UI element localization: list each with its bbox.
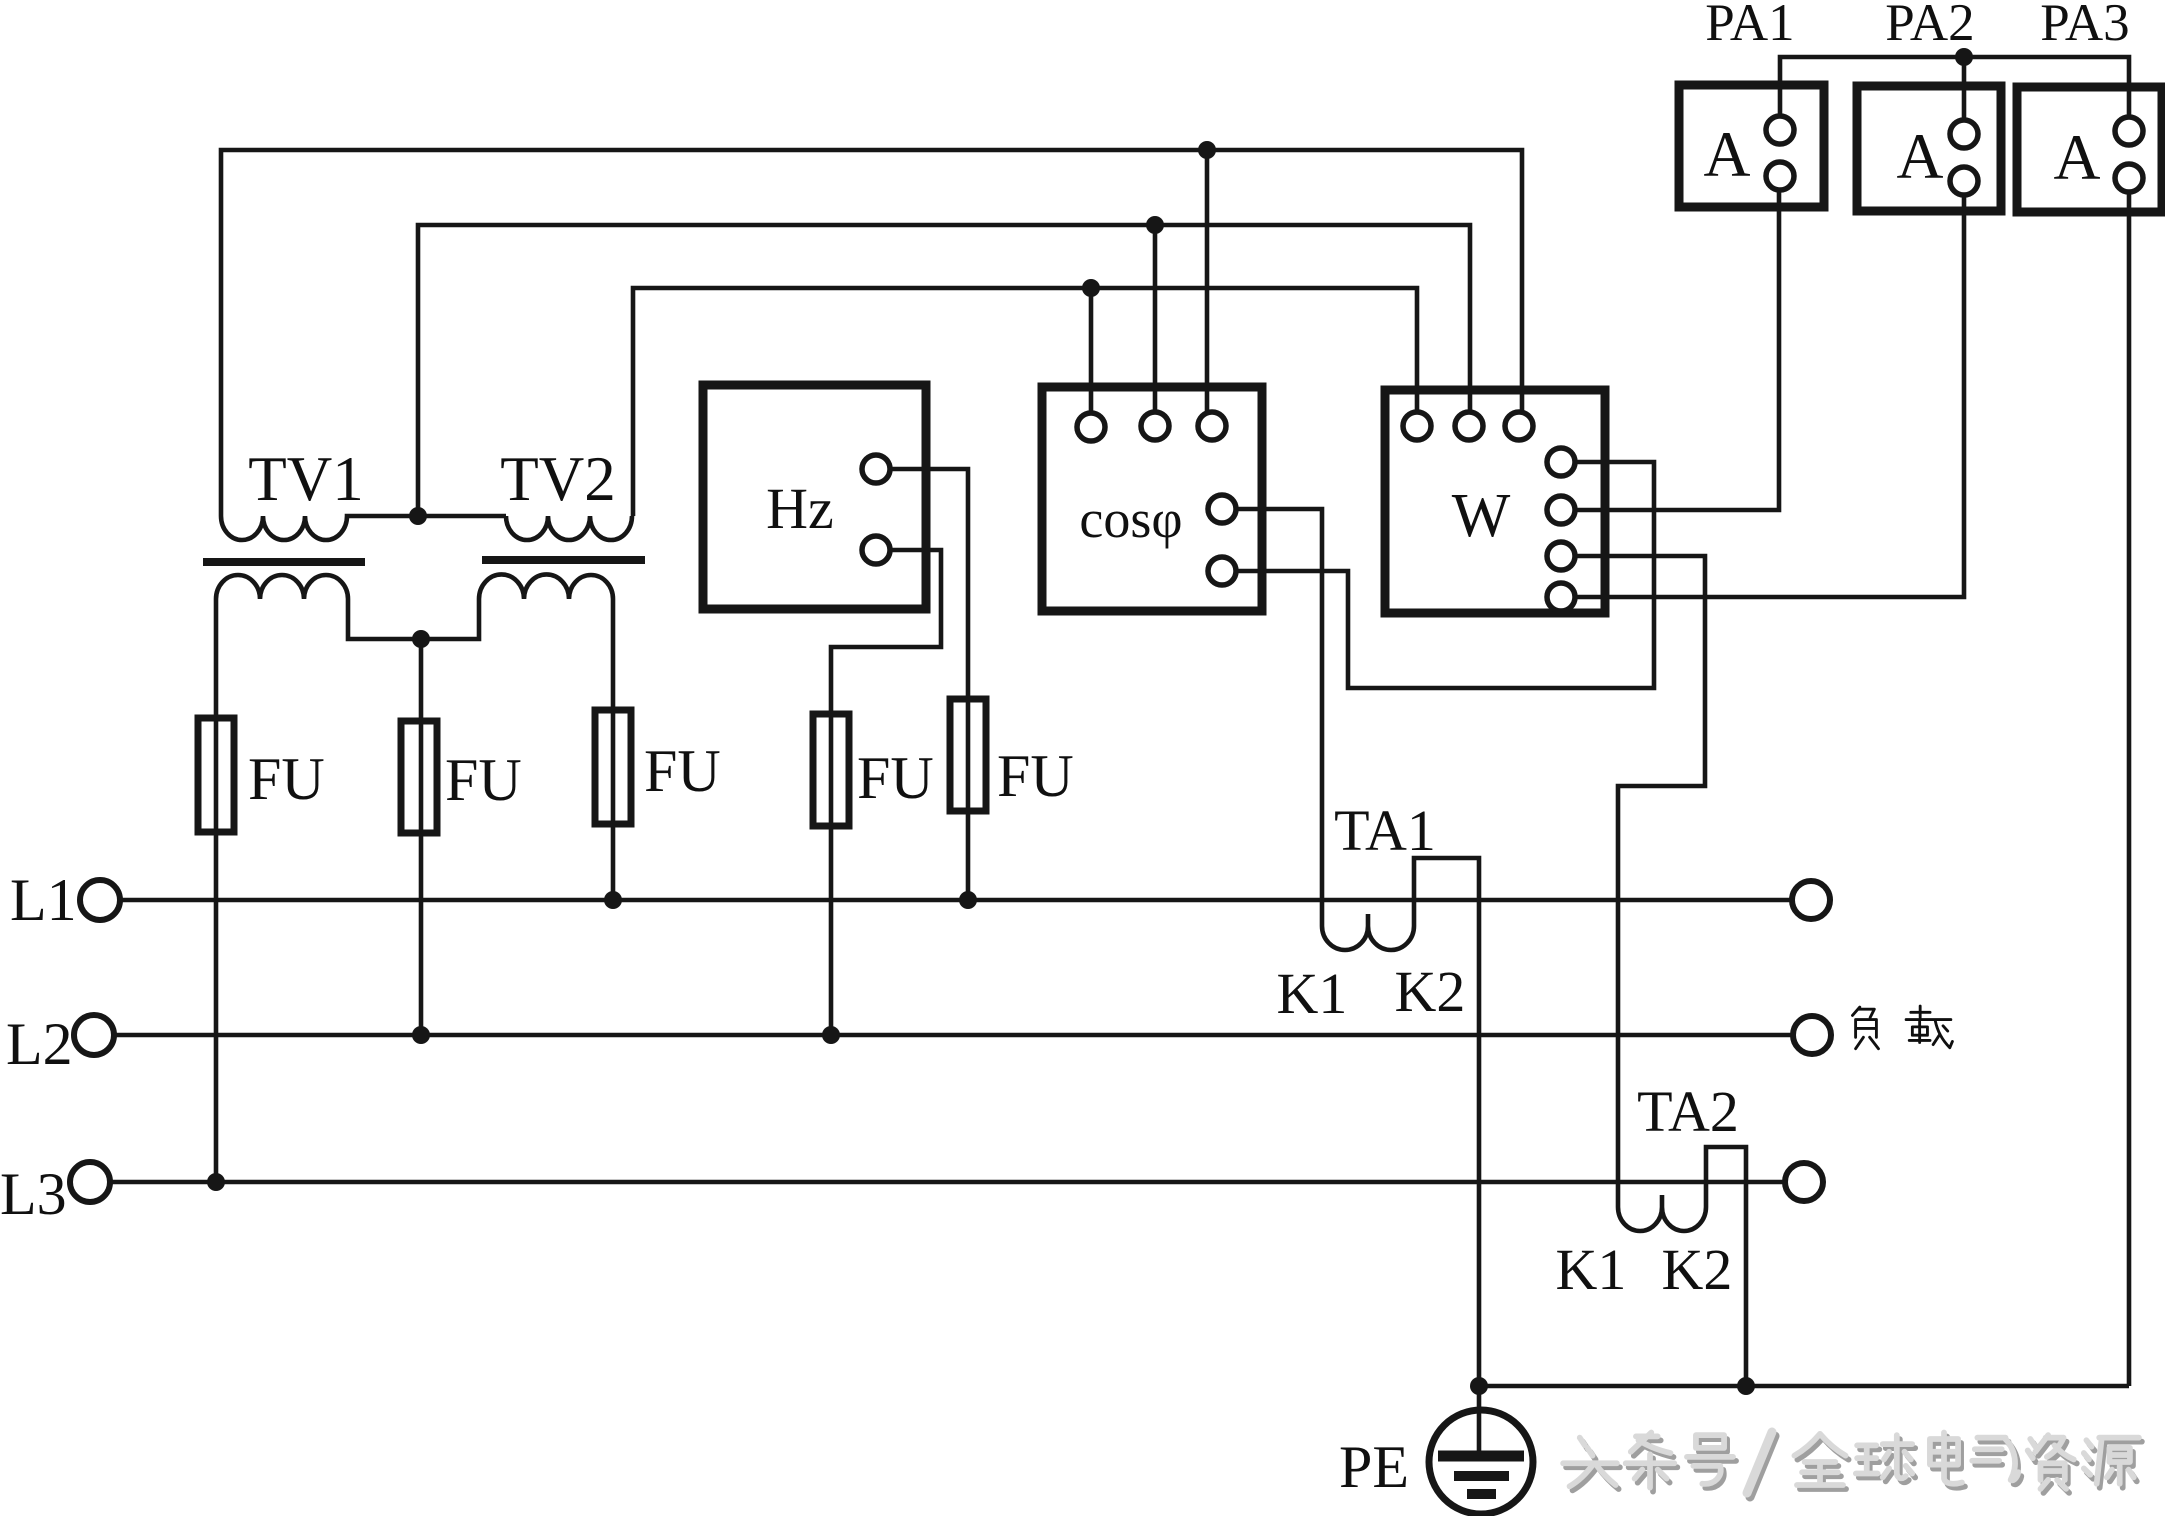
svg-text:PA1: PA1 <box>1705 0 1794 52</box>
transformer TV1 secondary winding <box>216 575 479 639</box>
terminal L1 left <box>80 880 120 920</box>
W terminal I3 <box>1547 542 1575 570</box>
transformer TV2 secondary winding <box>479 574 613 599</box>
current transformer TA2 K2 lead step-over <box>1706 1147 1746 1386</box>
W terminal I1 <box>1547 448 1575 476</box>
wire W terminal I2 to PA1 lower terminal <box>1574 189 1779 510</box>
cosphi terminal V1 <box>1077 413 1105 441</box>
glyph fu (load-1) <box>1852 1007 1878 1049</box>
PA1 upper terminal <box>1766 116 1794 144</box>
wire FU2 drop from TV common to L2 <box>419 639 424 1035</box>
svg-text:K2: K2 <box>1662 1237 1733 1302</box>
wire FU5 drop from Hz upper terminal to L1 <box>889 469 968 900</box>
wire ammeter common bus <box>1780 57 2129 118</box>
terminal L3 left <box>70 1162 110 1202</box>
current transformer TA1 secondary winding <box>1322 901 1414 950</box>
wire cosphi lower current terminal to W terminal I1 <box>1235 462 1654 688</box>
svg-text:L1: L1 <box>10 867 77 933</box>
W terminal V3 <box>1505 412 1533 440</box>
fuse FU2 <box>401 721 437 833</box>
wire FU4 drop from Hz lower terminal to L2 <box>831 550 941 1035</box>
wattmeter W box <box>1385 390 1605 613</box>
current transformer TA1 K2 lead step-over <box>1414 858 1479 1386</box>
wire W terminal I3 to TA2 K1 <box>1574 556 1705 1183</box>
junction bus3/cosphi <box>1082 279 1100 297</box>
PA2 lower terminal <box>1950 167 1978 195</box>
svg-text:cosφ: cosφ <box>1079 489 1182 549</box>
terminal L1 right <box>1792 881 1830 919</box>
wire bus2 from TV primary junction to W terminal V2 <box>418 225 1470 516</box>
junction FU4/L2 <box>822 1026 840 1044</box>
svg-text:K1: K1 <box>1277 961 1348 1026</box>
terminal L3 right <box>1785 1163 1823 1201</box>
label load (fu zai) hand-drawn glyphs <box>1852 1006 1952 1049</box>
junction TA1/ground bus <box>1470 1377 1488 1395</box>
transformer TV2 primary winding <box>506 516 632 540</box>
terminal L2 left <box>74 1015 114 1055</box>
svg-text:FU: FU <box>997 743 1074 809</box>
cosphi current terminal lower <box>1208 557 1236 585</box>
svg-text:PE: PE <box>1339 1434 1409 1500</box>
wire bus1 from TV1 primary left lead to W terminal V3 <box>221 150 1522 516</box>
svg-text:A: A <box>1704 119 1751 191</box>
wire cosphi upper current terminal to TA1 K1 <box>1235 509 1322 902</box>
svg-text:K1: K1 <box>1556 1237 1627 1302</box>
PA3 lower terminal <box>2115 164 2143 192</box>
fuse FU3 <box>595 710 631 824</box>
cosphi terminal V2 <box>1141 412 1169 440</box>
PA3 upper terminal <box>2115 117 2143 145</box>
junction FU5/L1 <box>959 891 977 909</box>
wire ground bus <box>1479 1384 2129 1389</box>
svg-text:Hz: Hz <box>766 476 834 541</box>
line L2 <box>115 1033 1793 1038</box>
current transformer TA2 secondary winding <box>1618 1182 1706 1231</box>
wire PA2 upper terminal drop <box>1962 57 1967 121</box>
W terminal V2 <box>1455 412 1483 440</box>
wire drop bus1 to cos-phi terminal V3 <box>1205 150 1210 414</box>
PA2 upper terminal <box>1950 120 1978 148</box>
transformer TV1 primary winding <box>221 516 506 540</box>
svg-text:FU: FU <box>248 746 325 812</box>
terminal L2 right <box>1793 1016 1831 1054</box>
svg-text:TV1: TV1 <box>248 444 363 514</box>
watermark toutiaohao / quanqiu dianqi ziyuan <box>1563 1432 2142 1497</box>
svg-text:TA2: TA2 <box>1637 1079 1739 1144</box>
PA1 lower terminal <box>1766 162 1794 190</box>
W terminal I2 <box>1547 496 1575 524</box>
wire FU1 drop from TV1 secondary to L3 <box>214 599 219 1182</box>
svg-text:FU: FU <box>445 747 522 813</box>
power-factor meter cosphi box <box>1042 387 1262 611</box>
svg-text:TA1: TA1 <box>1334 798 1436 863</box>
transformer TV1 core <box>203 558 365 566</box>
svg-text:TV2: TV2 <box>500 444 615 514</box>
transformer TV2 core <box>482 556 645 564</box>
junction bus2/cosphi <box>1146 216 1164 234</box>
svg-text:PA3: PA3 <box>2040 0 2129 52</box>
ground PE symbol <box>1477 1386 1482 1452</box>
ammeter PA3 box <box>2017 87 2162 212</box>
W terminal V1 <box>1403 412 1431 440</box>
svg-text:W: W <box>1452 482 1511 550</box>
svg-text:FU: FU <box>857 745 934 811</box>
svg-text:K2: K2 <box>1395 959 1466 1024</box>
wire bus3 from TV2 primary right lead to W terminal V1 <box>633 288 1417 516</box>
fuse FU5 <box>950 699 986 811</box>
cosphi terminal V3 <box>1198 412 1226 440</box>
wire FU3 drop from TV2 secondary to L1 <box>611 599 616 900</box>
junction FU2/L2 <box>412 1026 430 1044</box>
wire W terminal I4 to PA2 lower terminal <box>1574 194 1964 597</box>
W terminal I4 <box>1547 583 1575 611</box>
svg-text:A: A <box>2054 122 2101 194</box>
wire PA3 lower terminal to ground bus <box>2127 191 2132 1386</box>
glyph zai (load-2) <box>1906 1006 1952 1048</box>
frequency meter Hz box <box>703 385 926 609</box>
wire drop bus3 to cos-phi terminal V1 <box>1089 288 1094 414</box>
junction TV1-TV2 primary <box>409 507 427 525</box>
junction TA2/ground bus <box>1737 1377 1755 1395</box>
junction bus1/cosphi <box>1198 141 1216 159</box>
fuse FU4 <box>813 714 849 826</box>
wire drop bus2 to cos-phi terminal V2 <box>1153 225 1158 413</box>
svg-text:FU: FU <box>644 738 721 804</box>
ammeter PA1 box <box>1679 85 1824 207</box>
junction TV secondary common <box>412 630 430 648</box>
junction ammeter bus / PA2 <box>1955 48 1973 66</box>
fuse FU1 <box>198 718 234 832</box>
junction FU1/L3 <box>207 1173 225 1191</box>
junction FU3/L1 <box>604 891 622 909</box>
cosphi current terminal upper <box>1208 495 1236 523</box>
Hz terminal upper <box>862 455 890 483</box>
svg-text:L2: L2 <box>6 1011 73 1077</box>
Hz terminal lower <box>862 536 890 564</box>
line L1 <box>121 898 1792 903</box>
svg-text:PA2: PA2 <box>1885 0 1974 52</box>
ammeter PA2 box <box>1857 86 2001 211</box>
svg-text:L3: L3 <box>0 1161 67 1227</box>
line L3 <box>111 1180 1785 1185</box>
svg-text:A: A <box>1897 121 1944 193</box>
